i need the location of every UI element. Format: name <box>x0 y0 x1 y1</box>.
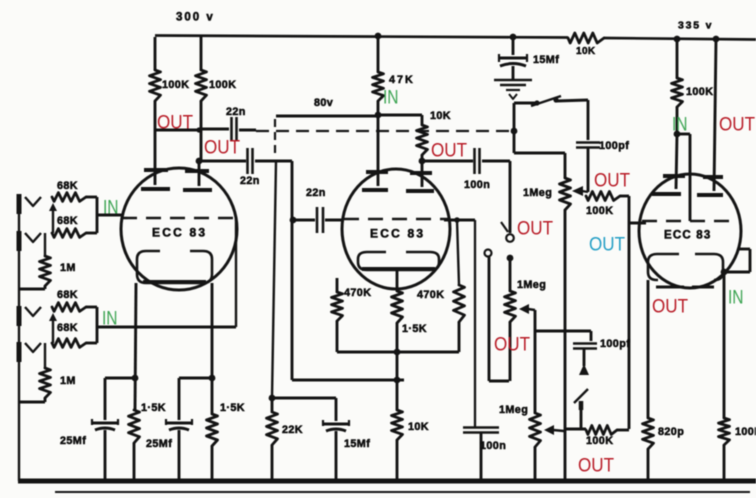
svg-text:IN: IN <box>383 88 399 109</box>
svg-text:1M: 1M <box>60 262 76 274</box>
svg-text:ECC 83: ECC 83 <box>152 226 207 240</box>
svg-text:300 v: 300 v <box>176 11 215 23</box>
svg-text:OUT: OUT <box>578 456 614 477</box>
svg-text:15Mf: 15Mf <box>344 438 370 450</box>
svg-text:1Meg: 1Meg <box>523 187 552 199</box>
svg-text:10K: 10K <box>576 46 596 57</box>
svg-text:820p: 820p <box>658 426 684 438</box>
svg-text:80v: 80v <box>314 97 333 109</box>
svg-text:15Mf: 15Mf <box>533 54 559 66</box>
svg-text:68K: 68K <box>57 180 78 192</box>
svg-text:100K: 100K <box>162 79 189 91</box>
svg-text:OUT: OUT <box>719 115 755 136</box>
svg-text:100K: 100K <box>586 435 613 447</box>
svg-text:OUT: OUT <box>594 171 630 192</box>
svg-text:100K: 100K <box>686 86 713 98</box>
svg-text:IN: IN <box>102 309 118 330</box>
svg-text:335 v: 335 v <box>678 20 713 32</box>
svg-text:1M: 1M <box>60 375 76 387</box>
svg-text:OUT: OUT <box>589 235 625 256</box>
svg-text:OUT: OUT <box>431 141 467 162</box>
svg-text:100n: 100n <box>464 179 490 191</box>
svg-text:OUT: OUT <box>494 335 530 356</box>
svg-text:22n: 22n <box>240 175 260 187</box>
svg-text:OUT: OUT <box>517 219 553 240</box>
svg-text:IN: IN <box>728 288 744 309</box>
svg-text:100pf: 100pf <box>600 338 630 350</box>
svg-text:1Meg: 1Meg <box>517 279 546 291</box>
svg-text:1·5K: 1·5K <box>402 323 427 335</box>
svg-text:100pf: 100pf <box>599 140 629 152</box>
svg-text:25Mf: 25Mf <box>60 435 86 447</box>
svg-text:22n: 22n <box>226 106 246 118</box>
svg-text:1·5K: 1·5K <box>220 402 245 414</box>
svg-text:470K: 470K <box>344 287 371 299</box>
svg-text:22K: 22K <box>282 424 303 436</box>
svg-text:100n: 100n <box>480 440 506 452</box>
svg-text:68K: 68K <box>57 289 78 301</box>
svg-text:470K: 470K <box>417 289 444 301</box>
svg-text:OUT: OUT <box>204 138 240 159</box>
svg-text:22n: 22n <box>306 187 326 199</box>
svg-text:100K: 100K <box>586 205 613 217</box>
svg-text:ECC 83: ECC 83 <box>664 229 711 241</box>
svg-text:25Mf: 25Mf <box>146 438 172 450</box>
svg-text:1·5K: 1·5K <box>141 402 166 414</box>
svg-text:10K: 10K <box>408 421 429 433</box>
svg-text:IN: IN <box>103 198 119 219</box>
svg-text:IN: IN <box>672 115 688 136</box>
svg-text:68K: 68K <box>57 322 78 334</box>
svg-text:OUT: OUT <box>652 297 688 318</box>
svg-text:100K: 100K <box>735 426 756 438</box>
svg-text:100K: 100K <box>209 79 236 91</box>
svg-text:10K: 10K <box>430 110 451 122</box>
svg-text:68K: 68K <box>57 215 78 227</box>
svg-text:1Meg: 1Meg <box>499 404 528 416</box>
svg-text:47K: 47K <box>389 74 415 86</box>
svg-text:ECC 83: ECC 83 <box>370 227 425 241</box>
svg-text:OUT: OUT <box>157 113 193 134</box>
